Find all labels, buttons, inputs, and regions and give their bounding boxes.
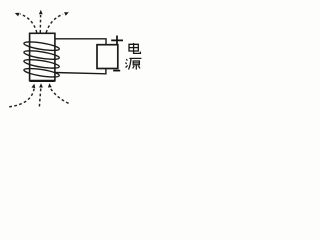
arrowhead top-right	[64, 12, 69, 16]
arrowhead top-middle	[39, 10, 43, 14]
label 源 (source) glyph	[125, 58, 141, 69]
field line bottom-left (dashed)	[9, 88, 34, 107]
plus terminal label	[111, 36, 123, 45]
coil turn 4	[23, 67, 59, 79]
label 电 (power) glyph	[129, 43, 140, 53]
coil turn 2	[23, 49, 59, 61]
wire top (coil to battery +)	[55, 39, 106, 45]
field line top-right (dashed)	[46, 14, 63, 32]
minus terminal label	[113, 70, 120, 72]
arrowhead top-left	[15, 13, 20, 17]
coil turn 1	[23, 40, 59, 52]
field line top-middle (dashed)	[39, 15, 41, 33]
arrowhead bottom-right	[48, 83, 52, 87]
arrowhead bottom-middle	[39, 83, 43, 87]
solenoid coil body L1	[30, 33, 55, 81]
field line top-left (dashed)	[20, 14, 37, 33]
battery box (power source)	[97, 45, 118, 69]
coil turn 3	[23, 58, 59, 70]
wire bottom (coil to battery -)	[55, 68, 106, 73]
field line bottom-right (dashed)	[50, 88, 68, 103]
coil bottom edge (heavier scan line)	[30, 80, 55, 82]
field line bottom-middle (dashed)	[39, 88, 40, 107]
background	[0, 0, 144, 111]
arrowhead bottom-left	[32, 84, 36, 89]
